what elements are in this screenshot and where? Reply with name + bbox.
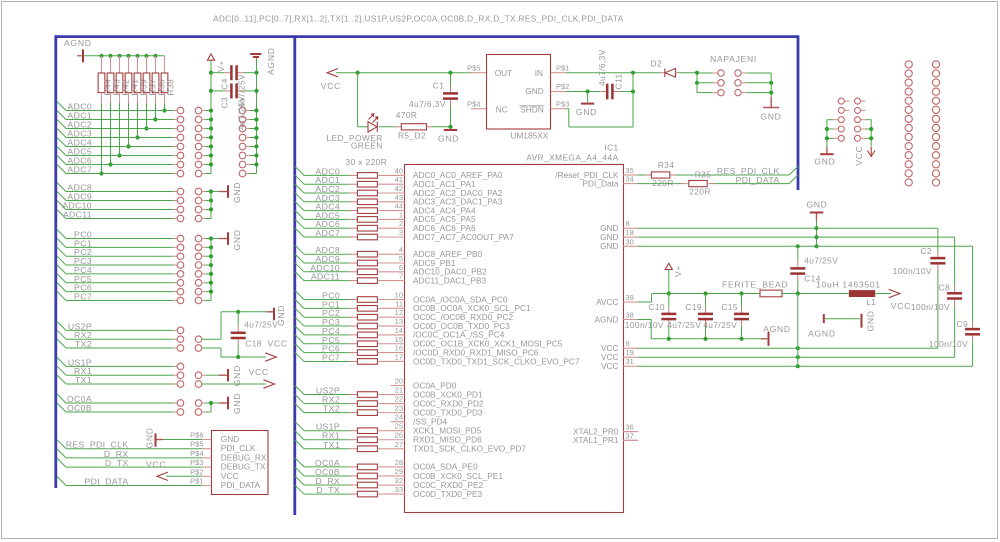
- svg-text:P$3: P$3: [556, 99, 569, 108]
- wire net ADC8 to pin 4: [295, 245, 304, 254]
- svg-text:GREEN: GREEN: [351, 141, 383, 151]
- svg-text:40: 40: [395, 166, 403, 175]
- connector pad: [177, 279, 184, 286]
- ground GND: [211, 191, 219, 193]
- wire net PDI_DATA: [638, 183, 682, 185]
- svg-text:TXD1_SCK_CLKO_EVO_PD7: TXD1_SCK_CLKO_EVO_PD7: [413, 444, 526, 454]
- svg-text:ADC11_DAC1_PB3: ADC11_DAC1_PB3: [413, 275, 487, 285]
- wire net ADC8: [57, 183, 66, 192]
- svg-text:4: 4: [399, 245, 403, 254]
- wire: [861, 137, 866, 139]
- wire net OC0A: [57, 394, 66, 403]
- svg-text:32: 32: [395, 476, 403, 485]
- svg-text:FERITE_BEAD: FERITE_BEAD: [722, 280, 788, 290]
- svg-text:GND: GND: [760, 112, 781, 122]
- pin 17 OC0D_TXD0_TXD1_SCK_CLKO_EVO_PC7: [378, 360, 405, 362]
- connector pad: [905, 143, 912, 150]
- supply VCC arrow at P$2: [157, 472, 168, 480]
- wire net ADC7: [57, 165, 66, 174]
- connector pad: [838, 107, 844, 113]
- connector pad: [195, 116, 202, 123]
- pin 19 VCC: [623, 356, 637, 358]
- connector pad: [195, 288, 202, 295]
- svg-text:37: 37: [626, 431, 634, 440]
- connector pad: [195, 170, 202, 177]
- LED LED_POWER: [357, 73, 359, 127]
- svg-text:PDI_DATA: PDI_DATA: [221, 480, 261, 490]
- wire net PC4 to pin 14: [295, 326, 304, 335]
- svg-text:C11: C11: [614, 74, 624, 90]
- pin P$4 NC: [471, 108, 486, 110]
- wire: [202, 137, 206, 139]
- svg-text:NC: NC: [496, 104, 508, 114]
- pin 34 PDI_Data: [623, 183, 637, 185]
- svg-text:GND: GND: [600, 241, 618, 251]
- junction: [117, 153, 121, 157]
- wire: [202, 209, 206, 211]
- connector pad: [905, 88, 912, 95]
- wire net PC3 to pin 13: [295, 317, 304, 326]
- pin 18 GND: [623, 236, 637, 238]
- supply VCC arrow top: [327, 69, 338, 77]
- svg-text:GND: GND: [806, 200, 827, 210]
- IC IC1 AVR_XMEGA_A4_44A: [405, 165, 624, 513]
- svg-text:P$1: P$1: [190, 477, 203, 486]
- resistor 220R pin 21: [357, 392, 377, 398]
- connector pad: [195, 262, 202, 269]
- connector pad: [905, 179, 912, 186]
- svg-text:VCC: VCC: [249, 367, 269, 377]
- connector pad: [177, 363, 184, 370]
- wire resistor-array top rail: [84, 55, 165, 57]
- svg-text:39: 39: [626, 293, 634, 302]
- pin 40 ADC0_AC0_AREF_PA0: [378, 174, 405, 176]
- junction: [135, 135, 139, 139]
- resistor 220R pin 12: [357, 314, 377, 320]
- svg-text:24: 24: [395, 413, 403, 422]
- svg-text:GND: GND: [232, 365, 242, 386]
- wire net RX1: [57, 366, 66, 375]
- bus vertical left segment: [54, 35, 57, 488]
- wire net ADC10 to pin 6: [295, 263, 304, 272]
- wire vertical: [770, 73, 772, 93]
- connector pad: [905, 170, 912, 177]
- connector pad: [177, 107, 184, 114]
- pin 21 OC0B_XCK0_PD1: [378, 394, 405, 396]
- pin 31 VCC: [623, 365, 637, 367]
- svg-text:UM185XX: UM185XX: [511, 130, 549, 140]
- wire net D_TX: [57, 458, 66, 467]
- ground GND: [770, 93, 772, 97]
- wire AGND rail vertical: [256, 57, 258, 174]
- supply VCC arrow: [265, 353, 276, 361]
- connector pad: [177, 152, 184, 159]
- svg-text:44: 44: [395, 202, 403, 211]
- resistor 220R pin 32: [357, 482, 377, 488]
- connector pad: [239, 125, 246, 132]
- wire: [202, 402, 206, 404]
- pin 22 OC0C_RXD0_PD2: [378, 403, 405, 405]
- wire: [202, 110, 206, 112]
- wire vertical: [210, 239, 212, 301]
- svg-text:P$4: P$4: [467, 99, 480, 108]
- resistor 220R pin 43: [357, 199, 377, 205]
- svg-text:VCC: VCC: [268, 339, 288, 349]
- pin P$5 OUT: [471, 72, 486, 74]
- connector pad: [195, 125, 202, 132]
- pin 26 RXD1_MISO_PD6: [378, 439, 405, 441]
- ground GND: [820, 153, 833, 155]
- wire net RX2 to pin 22: [295, 395, 304, 404]
- wire: [782, 293, 849, 295]
- wire net PC6 to pin 16: [295, 344, 304, 353]
- resistor R5_D2 470R: [379, 126, 395, 128]
- wire VCC row 1: [638, 347, 938, 349]
- wire: [861, 128, 866, 130]
- wire net RX2: [57, 330, 66, 339]
- svg-text:OC0D_TXD0_PE3: OC0D_TXD0_PE3: [413, 489, 483, 499]
- svg-text:P$2: P$2: [556, 82, 569, 91]
- svg-text:5: 5: [399, 254, 403, 263]
- wire: [202, 255, 206, 257]
- wire net PC1: [57, 238, 66, 247]
- pin 10 OC0A_/OC0A_SDA_PC0: [378, 299, 405, 301]
- wire VCC to regulator: [336, 72, 471, 74]
- svg-text:16: 16: [395, 344, 403, 353]
- pin 33 OC0D_TXD0_PE3: [378, 493, 405, 495]
- svg-text:12: 12: [395, 308, 403, 317]
- wire net PDI_DATA: [57, 477, 66, 486]
- pin 16 /OC0D_RXD0_RXD1_MISO_PC6: [378, 352, 405, 354]
- connector pad: [932, 97, 939, 104]
- resistor R38: [164, 56, 166, 73]
- ground GND at P$6: [155, 433, 157, 446]
- svg-text:AGND: AGND: [64, 38, 92, 48]
- pin P$1 IN: [551, 72, 566, 74]
- wire net OC0A to pin 28: [295, 458, 304, 467]
- svg-text:R38: R38: [166, 79, 176, 96]
- connector pad: [177, 206, 184, 213]
- wire net PC5 to pin 15: [295, 335, 304, 344]
- bus vertical middle segment: [293, 37, 296, 515]
- supply AGND: [250, 53, 261, 55]
- svg-text:33: 33: [395, 485, 403, 494]
- wire: [202, 155, 206, 157]
- connector pad: [195, 336, 202, 343]
- svg-text:AVR_XMEGA_A4_44A: AVR_XMEGA_A4_44A: [526, 152, 618, 162]
- wire: [246, 119, 250, 121]
- junction: [144, 126, 148, 130]
- svg-text:GND: GND: [232, 393, 242, 414]
- wire net TX1 to pin 27: [295, 440, 304, 449]
- svg-text:43: 43: [395, 193, 403, 202]
- svg-text:TX1: TX1: [323, 440, 340, 450]
- svg-text:21: 21: [395, 386, 403, 395]
- connector pad: [195, 381, 202, 388]
- pin 5 ADC9_PB1: [378, 262, 405, 264]
- connector pad: [177, 235, 184, 242]
- pin 9 VCC: [623, 347, 637, 349]
- pin 32 OC0C_RXD0_PE2: [378, 484, 405, 486]
- resistor 220R pin 2: [357, 225, 377, 231]
- connector pad: [932, 179, 939, 186]
- wire net PC7: [57, 291, 66, 300]
- pin 43 ADC3_AC3_DAC1_PA3: [378, 201, 405, 203]
- wire net RX1 to pin 26: [295, 431, 304, 440]
- capacitor C4: [211, 72, 224, 74]
- ground GND on RX1: [202, 374, 206, 376]
- capacitor C14: [797, 246, 799, 261]
- svg-text:GND: GND: [576, 107, 597, 117]
- svg-text:GND: GND: [814, 157, 835, 167]
- connector pad: [195, 143, 202, 150]
- svg-text:17: 17: [395, 352, 403, 361]
- connector pad: [195, 206, 202, 213]
- connector pad: [838, 126, 844, 132]
- svg-text:ADC[0..11],PC[0..7],RX[1..2],T: ADC[0..11],PC[0..7],RX[1..2],TX[1..2],US…: [213, 14, 624, 24]
- connector pad: [177, 327, 184, 334]
- svg-text:PDI_DATA: PDI_DATA: [736, 175, 780, 185]
- svg-text:AGND: AGND: [763, 324, 791, 334]
- wire net ADC0 to pin 40: [295, 166, 304, 175]
- wire: [202, 299, 206, 301]
- connector pad: [718, 89, 724, 95]
- svg-text:100n/10V: 100n/10V: [929, 339, 968, 349]
- connector pad: [932, 79, 939, 86]
- svg-text:L1: L1: [866, 297, 876, 307]
- resistor 220R pin 13: [357, 323, 377, 329]
- svg-text:22: 22: [395, 395, 403, 404]
- wire: [202, 146, 206, 148]
- connector pad: [195, 400, 202, 407]
- connector pad: [239, 170, 246, 177]
- wire net D_RX to pin 32: [295, 476, 304, 485]
- svg-text:18: 18: [626, 228, 634, 237]
- wire net PC0 to pin 10: [295, 291, 304, 300]
- connector pad: [177, 262, 184, 269]
- svg-text:C4: C4: [220, 78, 230, 90]
- connector pad: [905, 152, 912, 159]
- pin P$3 DEBUG_TX: [202, 466, 211, 468]
- wire VCC row 3: [638, 365, 973, 367]
- wire vertical GND side: [826, 120, 828, 147]
- svg-text:ADC11: ADC11: [311, 272, 340, 282]
- wire VCC tie vertical: [797, 294, 799, 367]
- svg-text:TX2: TX2: [323, 404, 340, 414]
- wire net ADC6: [57, 156, 66, 165]
- pin 29 OC0B_XCK0_SCL_PE1: [378, 475, 405, 477]
- svg-text:C9: C9: [957, 319, 969, 329]
- svg-text:100n/10V: 100n/10V: [893, 266, 932, 276]
- wire AGND: [638, 319, 652, 321]
- resistor R34 220R: [651, 172, 669, 178]
- resistor 220R pin 28: [357, 464, 377, 470]
- wire: [202, 246, 206, 248]
- supply AGND tie: [823, 314, 825, 323]
- connector pad: [177, 170, 184, 177]
- pin XTAL1 stub: [623, 439, 638, 441]
- svg-text:VCC: VCC: [601, 361, 619, 371]
- wire net ADC9 to pin 5: [295, 254, 304, 263]
- pin P$4 DEBUG_RX: [202, 457, 211, 459]
- ground GND: [211, 402, 219, 404]
- wire net D_RX: [57, 449, 66, 458]
- wire GND row 2: [638, 236, 955, 238]
- pin 1 ADC5_AC5_PA5: [378, 218, 405, 220]
- connector pad: [855, 117, 861, 123]
- supply V+: [665, 263, 672, 269]
- connector pad: [195, 152, 202, 159]
- connector pad: [905, 97, 912, 104]
- connector pad: [932, 143, 939, 150]
- wire net RES_PDI_CLK: [638, 174, 646, 176]
- wire: [202, 291, 206, 293]
- junction: [126, 54, 130, 58]
- wire: [202, 238, 206, 240]
- wire: [202, 119, 206, 121]
- svg-text:20: 20: [395, 377, 403, 386]
- resistor 220R pin 26: [357, 437, 377, 443]
- wire net ADC11: [57, 210, 66, 219]
- resistor 220R pin 6: [357, 269, 377, 275]
- junction: [153, 117, 157, 121]
- connector pad: [177, 116, 184, 123]
- wire: [741, 82, 746, 84]
- diode D2: [665, 68, 676, 77]
- connector pad: [718, 70, 724, 76]
- pin 3 ADC7_AC7_AC0OUT_PA7: [378, 236, 405, 238]
- connector pad: [195, 279, 202, 286]
- capacitor C15: [741, 294, 743, 307]
- resistor 220R pin 42: [357, 190, 377, 196]
- capacitor C18: [236, 310, 240, 314]
- connector pad: [838, 98, 844, 104]
- connector pad: [177, 288, 184, 295]
- pin 25 XCK1_MOSI_PD5: [378, 430, 405, 432]
- pin 2 ADC6_AC6_PA6: [378, 227, 405, 229]
- svg-text:P$3: P$3: [190, 458, 203, 467]
- svg-text:2: 2: [399, 219, 403, 228]
- svg-text:ADC7: ADC7: [315, 228, 340, 238]
- connector pad: [177, 134, 184, 141]
- resistor R42: [119, 56, 121, 73]
- wire net US2P: [57, 321, 66, 330]
- junction: [99, 54, 103, 58]
- wire net ADC9: [57, 192, 66, 201]
- svg-text:P$5: P$5: [467, 63, 480, 72]
- svg-text:GND: GND: [232, 182, 242, 203]
- connector pad: [932, 106, 939, 113]
- wire VCC row 2: [638, 356, 955, 358]
- connector pad: [932, 133, 939, 140]
- svg-text:P$4: P$4: [190, 449, 203, 458]
- svg-text:ADC7_AC7_AC0OUT_PA7: ADC7_AC7_AC0OUT_PA7: [413, 232, 514, 242]
- ferrite bead FERITE_BEAD: [760, 290, 782, 297]
- resistor 220R pin 40: [357, 173, 377, 179]
- bus vertical right segment: [797, 35, 800, 190]
- connector pad: [239, 161, 246, 168]
- connector pad: [195, 297, 202, 304]
- resistor 220R pin 23: [357, 410, 377, 416]
- wire net OC0B to pin 29: [295, 467, 304, 476]
- connector pad: [905, 133, 912, 140]
- pin 12 OC0C_/OC0B_RXD0_PC2: [378, 316, 405, 318]
- resistor 220R pin 27: [357, 446, 377, 452]
- connector pad: [177, 381, 184, 388]
- connector pad: [932, 61, 939, 68]
- junction: [135, 54, 139, 58]
- connector pad: [718, 80, 724, 86]
- wire net RES_PDI_CLK: [57, 440, 66, 449]
- wire: [202, 164, 206, 166]
- svg-text:6: 6: [399, 263, 403, 272]
- ground GND: [211, 238, 219, 240]
- svg-text:GND: GND: [276, 305, 286, 326]
- svg-text:PC7: PC7: [322, 352, 340, 362]
- svg-text:10uH 1463501: 10uH 1463501: [816, 280, 881, 290]
- wire TX2 to C18 bottom: [202, 347, 222, 349]
- wire: [202, 273, 206, 275]
- wire net D_TX to pin 33: [295, 485, 304, 494]
- wire: [202, 218, 206, 220]
- pin P$3 SHDN: [551, 108, 566, 110]
- svg-text:VCC: VCC: [321, 81, 341, 91]
- supply VCC arrow: [875, 293, 891, 295]
- svg-text:3: 3: [399, 228, 403, 237]
- connector pad: [195, 409, 202, 416]
- svg-text:15: 15: [395, 335, 403, 344]
- wire net ADC5: [57, 147, 66, 156]
- resistor 220R pin 33: [357, 491, 377, 497]
- connector pad: [239, 116, 246, 123]
- connector pad: [177, 125, 184, 132]
- capacitor C2: [937, 228, 939, 251]
- svg-text:220R: 220R: [689, 187, 711, 197]
- svg-text:GND: GND: [145, 427, 155, 448]
- resistor 220R pin 41: [357, 181, 377, 187]
- supply AGND: [761, 338, 767, 340]
- svg-text:4u7/25V: 4u7/25V: [703, 320, 737, 330]
- wire: [202, 264, 206, 266]
- ground GND: [267, 311, 274, 313]
- junction: [108, 162, 112, 166]
- connector pad: [239, 143, 246, 150]
- svg-text:C1: C1: [433, 81, 445, 91]
- pin 24 /SS_PD4: [391, 421, 405, 423]
- connector pad: [735, 80, 741, 86]
- wire net ADC1: [57, 111, 66, 120]
- resistor 220R pin 44: [357, 208, 377, 214]
- svg-text:25: 25: [395, 422, 403, 431]
- resistor R41: [128, 56, 130, 73]
- wire: [246, 110, 250, 112]
- pin 42 ADC2_AC2_DAC0_PA2: [378, 192, 405, 194]
- svg-text:AGND: AGND: [595, 314, 619, 324]
- wire net PC0: [57, 230, 66, 239]
- svg-text:GND: GND: [525, 86, 543, 96]
- connector pad: [838, 135, 844, 141]
- connector pad: [195, 271, 202, 278]
- wire net ADC5 to pin 1: [295, 210, 304, 219]
- capacitor C11: [566, 91, 600, 93]
- resistor R36: [155, 56, 157, 73]
- connector pad: [195, 197, 202, 204]
- svg-text:14: 14: [395, 326, 403, 335]
- connector pad: [735, 89, 741, 95]
- wire net ADC0: [57, 102, 66, 111]
- resistor 220R pin 11: [357, 306, 377, 312]
- svg-text:30: 30: [626, 237, 634, 246]
